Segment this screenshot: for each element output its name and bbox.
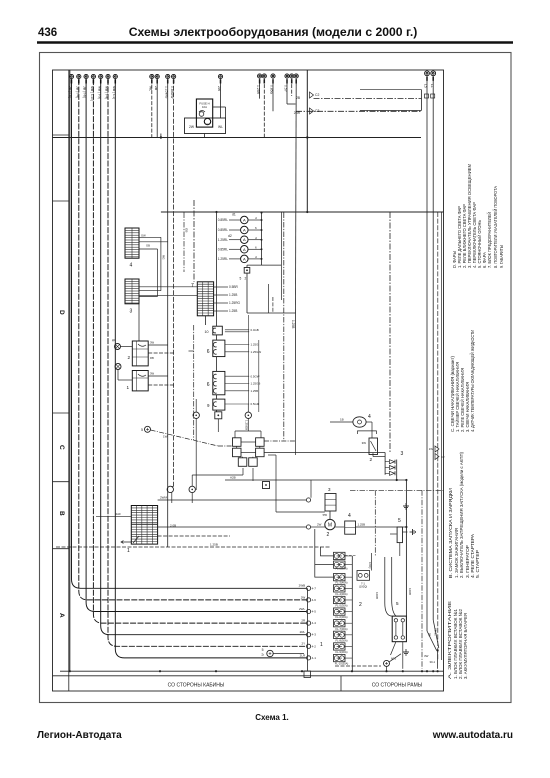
terminal <box>193 412 199 418</box>
wire <box>248 315 250 404</box>
wire <box>139 294 197 296</box>
svg-text:2W: 2W <box>217 86 221 92</box>
inline connector C2 <box>310 92 314 98</box>
svg-text:Д1: Д1 <box>112 338 116 342</box>
wire <box>225 107 227 118</box>
wire <box>241 451 256 453</box>
wire <box>403 531 408 533</box>
svg-text:L5: L5 <box>424 84 428 88</box>
wire <box>204 134 206 138</box>
connector terminal <box>150 74 154 78</box>
svg-text:1W: 1W <box>163 435 168 439</box>
svg-text:3W: 3W <box>424 654 429 658</box>
svg-text:MB (T-9): MB (T-9) <box>97 86 101 99</box>
connector terminal T5 <box>99 74 103 78</box>
wire <box>216 395 218 399</box>
wire stub <box>78 79 80 83</box>
wire <box>158 535 230 537</box>
wire <box>72 79 307 588</box>
wire stub <box>259 79 261 83</box>
wire stub <box>286 79 288 83</box>
wire <box>345 564 352 566</box>
wire <box>214 286 228 288</box>
svg-text:JB (T-6): JB (T-6) <box>83 86 87 98</box>
svg-text:4-4: 4-4 <box>312 621 317 625</box>
svg-text:FL-7(30A): FL-7(30A) <box>335 627 347 631</box>
zone divider <box>53 548 69 550</box>
fuse FL-6 <box>334 608 346 615</box>
wire <box>246 273 248 313</box>
svg-text:2R: 2R <box>301 619 306 623</box>
svg-text:A: A <box>58 613 65 618</box>
svg-text:СО СТОРОНЫ КАБИНЫ: СО СТОРОНЫ КАБИНЫ <box>168 683 225 689</box>
svg-text:2.0B: 2.0B <box>170 524 176 528</box>
wire <box>392 557 396 616</box>
svg-text:2Y: 2Y <box>302 642 306 646</box>
legend A block <box>447 601 469 679</box>
wire <box>193 200 195 282</box>
ground terminal 5 <box>145 426 151 432</box>
svg-text:5: 5 <box>262 648 264 652</box>
wire <box>79 79 307 600</box>
wire <box>229 219 241 221</box>
wire <box>216 335 218 340</box>
zone divider <box>53 481 69 483</box>
wire <box>96 515 131 517</box>
zone strip divider <box>68 70 70 691</box>
svg-text:A: A <box>243 237 246 242</box>
inline connector C3 <box>310 108 314 114</box>
wire stub <box>432 77 434 81</box>
connector terminal <box>425 71 430 76</box>
wire <box>148 344 168 346</box>
connector 1 <box>131 506 157 545</box>
connector terminal T4 <box>91 74 95 78</box>
wire <box>160 237 162 290</box>
lamp L1 <box>241 216 249 224</box>
svg-text:2AF: 2AF <box>115 512 121 516</box>
fuse FL-1 <box>334 552 346 559</box>
relay contact 2 <box>256 438 265 447</box>
svg-text:436: 436 <box>38 27 57 39</box>
svg-text:d: d <box>255 216 257 220</box>
terminal <box>306 498 310 502</box>
connector 10 <box>213 326 223 335</box>
svg-text:WL: WL <box>148 86 152 91</box>
svg-text:6: 6 <box>207 382 210 388</box>
connector 3b <box>325 494 336 512</box>
wire <box>225 375 249 377</box>
terminal block <box>263 482 270 489</box>
ground bus <box>60 670 444 672</box>
svg-text:3W: 3W <box>150 372 154 376</box>
wire <box>330 421 353 423</box>
relay contact 1 <box>233 438 242 447</box>
relay strip <box>185 118 226 134</box>
starter relay 5 <box>392 616 406 642</box>
wire <box>296 110 422 112</box>
wire <box>259 446 261 448</box>
terminal <box>189 486 195 492</box>
wire <box>426 76 428 631</box>
wire <box>370 574 385 576</box>
wire <box>345 576 352 578</box>
connector 3 <box>125 279 139 304</box>
svg-text:0.85RL: 0.85RL <box>218 248 229 252</box>
wire <box>335 526 344 528</box>
connector terminal <box>285 74 289 78</box>
legend B block <box>448 452 481 578</box>
wire <box>283 213 285 442</box>
svg-text:FL-8(30A): FL-8(30A) <box>335 638 347 642</box>
fuse FL-8 <box>334 631 346 638</box>
svg-text:d: d <box>255 255 257 259</box>
svg-text:d: d <box>255 236 257 240</box>
wire <box>69 70 71 671</box>
svg-text:www.autodata.ru: www.autodata.ru <box>432 730 513 741</box>
wire <box>295 313 297 420</box>
svg-text:1.25RG: 1.25RG <box>229 301 241 305</box>
wire stub <box>173 79 175 83</box>
dash-dot wire <box>183 213 185 273</box>
wire stub <box>295 79 297 83</box>
wire <box>433 620 439 648</box>
svg-text:0.85RL: 0.85RL <box>218 228 229 232</box>
diode pack 3 <box>385 453 397 481</box>
svg-text:Легион-Автодата: Легион-Автодата <box>37 730 122 741</box>
relay contact 6 <box>249 458 258 467</box>
bus wire <box>306 70 308 212</box>
connector 4 <box>125 228 139 258</box>
svg-text:B. СИСТЕМА ЗАПУСКА И ЗАРЯДКИ: B. СИСТЕМА ЗАПУСКА И ЗАРЯДКИ <box>448 487 454 578</box>
wire <box>314 98 422 100</box>
wire <box>139 296 158 298</box>
fuse output bus <box>351 556 353 671</box>
svg-text:6: 6 <box>207 349 210 355</box>
wire <box>167 79 169 547</box>
wire <box>214 310 228 312</box>
terminal <box>307 598 311 602</box>
wire <box>225 331 249 333</box>
wire <box>148 352 173 354</box>
horn 4 <box>353 417 366 427</box>
svg-text:GB: GB <box>184 228 188 232</box>
svg-text:4-7: 4-7 <box>312 586 317 590</box>
wire <box>148 384 173 386</box>
wire <box>213 106 226 108</box>
svg-text:9. ГАБАРИТЫ: 9. ГАБАРИТЫ <box>499 245 505 268</box>
wire <box>386 666 388 671</box>
connector terminal T2 <box>77 74 81 78</box>
connector terminal <box>258 74 262 78</box>
svg-text:FL-4(30A): FL-4(30A) <box>335 592 347 596</box>
svg-text:FL-6(30A): FL-6(30A) <box>335 615 347 619</box>
indicator lamp <box>115 344 121 350</box>
connector terminal <box>290 74 294 78</box>
svg-text:3: 3 <box>401 451 404 457</box>
relay contact 5 <box>238 458 247 467</box>
svg-text:5: 5 <box>141 428 143 432</box>
svg-text:JB (T-4): JB (T-4) <box>75 86 79 98</box>
svg-text:5: 5 <box>396 601 399 606</box>
fuse FL-10 <box>334 654 346 661</box>
svg-text:10A: 10A <box>202 105 207 109</box>
terminal <box>306 525 310 529</box>
connector 6b <box>213 371 225 394</box>
wire stub <box>114 79 116 83</box>
svg-text:WL: WL <box>218 125 223 129</box>
svg-text:RG: RG <box>161 255 165 260</box>
inline connector C2 <box>435 446 439 452</box>
svg-text:А. ЭЛЕКТРОПИТАНИЕ: А. ЭЛЕКТРОПИТАНИЕ <box>447 601 453 679</box>
wire <box>335 665 381 667</box>
wire <box>427 631 437 650</box>
svg-text:2WL: 2WL <box>299 607 306 611</box>
main vertical <box>405 480 407 616</box>
wire <box>248 219 261 221</box>
svg-text:FL-10(30A): FL-10(30A) <box>335 662 349 666</box>
wire <box>345 622 352 624</box>
svg-text:d1: d1 <box>232 213 236 217</box>
wire <box>156 79 158 137</box>
svg-text:4-5: 4-5 <box>312 610 317 614</box>
wire <box>229 229 241 231</box>
wire <box>356 526 407 528</box>
svg-text:1.25B: 1.25B <box>229 309 237 313</box>
wire <box>246 265 248 267</box>
wire <box>218 445 233 447</box>
lamp L5 <box>241 255 249 263</box>
wire <box>329 511 331 519</box>
wire <box>216 357 218 372</box>
svg-text:A: A <box>243 256 246 261</box>
bus wire <box>161 211 444 213</box>
relay contact 4 <box>256 448 265 457</box>
junction bus <box>307 588 309 671</box>
wire <box>371 553 373 571</box>
wire <box>291 79 293 96</box>
zone divider <box>53 200 69 202</box>
ground <box>403 649 409 655</box>
relay cluster top link <box>235 430 261 432</box>
wire <box>225 383 249 385</box>
svg-text:5: 5 <box>398 518 401 524</box>
wire <box>248 248 261 250</box>
wire <box>229 248 241 250</box>
wire <box>234 431 236 438</box>
relay contact 3 <box>233 448 242 457</box>
svg-text:RB: RB <box>150 356 154 360</box>
bracket <box>358 431 377 434</box>
svg-text:3W: 3W <box>150 341 154 345</box>
wire <box>229 258 241 260</box>
wire <box>437 212 439 660</box>
wire <box>287 103 296 105</box>
wire <box>205 316 207 325</box>
wire <box>214 294 228 296</box>
svg-text:6: 6 <box>255 226 257 230</box>
dash-dot wire <box>421 490 423 669</box>
wire stub <box>156 79 158 83</box>
svg-text:0.85GW: 0.85GW <box>170 86 174 99</box>
wire <box>268 284 270 313</box>
wire <box>345 555 352 557</box>
svg-text:Схема 1.: Схема 1. <box>255 713 289 722</box>
wire <box>345 555 372 557</box>
wire stub <box>92 79 94 83</box>
wire <box>236 446 238 448</box>
svg-text:MB (T-4): MB (T-4) <box>105 86 109 99</box>
wire <box>139 286 197 288</box>
lamp L2 <box>241 226 249 234</box>
svg-text:4-2: 4-2 <box>312 644 317 648</box>
inline connector C2b <box>435 454 439 460</box>
wire <box>263 79 265 138</box>
svg-text:1.25B: 1.25B <box>291 320 295 328</box>
ground <box>410 529 416 535</box>
wire <box>195 419 197 491</box>
header rule <box>37 41 513 44</box>
wire stub <box>107 79 109 83</box>
wire <box>151 430 218 446</box>
svg-text:1.25B: 1.25B <box>210 543 218 547</box>
svg-text:MB (T-1): MB (T-1) <box>112 86 116 99</box>
wire <box>345 634 352 636</box>
wire <box>441 212 443 660</box>
svg-text:M: M <box>328 523 332 529</box>
zone divider <box>53 134 69 136</box>
wire <box>391 642 396 655</box>
connector terminal <box>262 74 266 78</box>
legend D block <box>452 164 505 268</box>
wire <box>172 485 174 488</box>
wire <box>121 346 133 348</box>
wire <box>115 79 306 658</box>
terminal <box>244 268 250 274</box>
wire <box>139 290 161 292</box>
svg-text:FL-3(40A): FL-3(40A) <box>335 581 347 585</box>
wire stub <box>263 79 265 83</box>
wire <box>225 479 253 481</box>
wire <box>241 441 256 443</box>
wire <box>366 421 372 423</box>
wire <box>242 457 244 458</box>
svg-text:3: 3 <box>328 487 331 492</box>
svg-text:3W: 3W <box>362 441 367 445</box>
wire stub <box>167 79 169 83</box>
svg-text:5B: 5B <box>428 633 432 637</box>
wire <box>345 657 352 659</box>
wire <box>108 79 306 646</box>
terminal <box>307 656 311 660</box>
svg-text:6: 6 <box>255 246 257 250</box>
wire <box>272 79 274 112</box>
svg-text:4-6: 4-6 <box>312 598 317 602</box>
battery plus terminal <box>267 650 273 656</box>
svg-text:100B: 100B <box>408 588 412 595</box>
svg-text:L1: L1 <box>430 84 434 88</box>
connector terminal <box>166 74 170 78</box>
wire <box>373 456 385 458</box>
wire <box>242 468 244 475</box>
connector terminal T6 <box>106 74 110 78</box>
indicator lamp <box>115 364 121 370</box>
connector on band <box>304 671 311 678</box>
arrow <box>121 541 131 544</box>
wire <box>275 455 277 512</box>
fuse box 7-1 <box>357 571 370 581</box>
wire <box>173 79 175 486</box>
svg-text:1.25G: 1.25G <box>251 343 260 347</box>
wire <box>286 79 288 104</box>
svg-text:(100Q): (100Q) <box>359 585 367 589</box>
wire <box>402 642 404 669</box>
wire stub <box>71 79 73 83</box>
connector terminal <box>294 74 298 78</box>
bottom band <box>53 675 444 677</box>
wire <box>157 249 159 297</box>
terminal <box>167 486 173 492</box>
connector terminal T7 <box>113 74 117 78</box>
svg-text:d2: d2 <box>228 234 232 238</box>
ground <box>403 503 409 509</box>
connector 6a <box>213 340 225 357</box>
svg-text:2W: 2W <box>189 125 195 129</box>
terminal <box>307 633 311 637</box>
svg-text:2B: 2B <box>154 86 158 91</box>
svg-text:0.5BR: 0.5BR <box>229 285 239 289</box>
wire <box>345 587 352 589</box>
svg-text:2W: 2W <box>317 523 322 527</box>
svg-text:4: 4 <box>130 263 133 269</box>
terminal <box>307 644 311 648</box>
wire <box>264 452 385 454</box>
svg-text:2: 2 <box>359 602 362 608</box>
wire <box>247 404 249 412</box>
wire <box>276 511 325 513</box>
fuse FL-5 <box>334 596 346 603</box>
svg-text:C2: C2 <box>315 93 319 97</box>
fuse FL-3 <box>334 574 346 581</box>
wire stub <box>100 79 102 83</box>
svg-text:4: 4 <box>368 414 371 420</box>
svg-text:1.25B: 1.25B <box>358 522 366 526</box>
svg-text:5. СТАРТЕР: 5. СТАРТЕР <box>475 550 481 578</box>
svg-text:FL-9(30A): FL-9(30A) <box>335 650 347 654</box>
svg-text:1.25B: 1.25B <box>251 389 259 393</box>
svg-text:1.25GW: 1.25GW <box>251 350 262 354</box>
terminal <box>307 586 311 590</box>
terminal <box>307 609 311 613</box>
svg-text:1.25B: 1.25B <box>229 293 237 297</box>
svg-text:2B: 2B <box>296 96 300 100</box>
wire <box>280 213 282 301</box>
wire <box>252 457 254 458</box>
wire <box>191 493 193 503</box>
svg-text:1.25WG: 1.25WG <box>164 86 168 99</box>
wire <box>345 599 352 601</box>
fuse FL-2 <box>334 561 346 568</box>
svg-text:A: A <box>243 247 246 252</box>
wire <box>310 480 312 498</box>
relay 1d <box>132 371 148 391</box>
wire <box>295 79 298 313</box>
svg-text:Схемы электрооборудования (мод: Схемы электрооборудования (модели с 2000… <box>129 25 418 39</box>
wire <box>192 474 243 476</box>
wire <box>345 611 352 613</box>
wire <box>139 248 158 250</box>
svg-text:GB: GB <box>146 244 150 248</box>
